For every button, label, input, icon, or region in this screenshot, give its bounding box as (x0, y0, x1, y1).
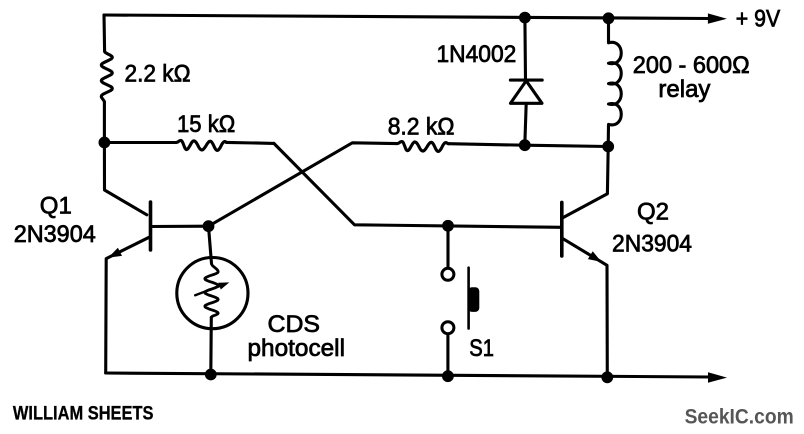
svg-text:SeekIC.com: SeekIC.com (685, 406, 794, 429)
svg-text:2N3904: 2N3904 (14, 221, 96, 248)
switch S1 upper contact circle (442, 268, 454, 280)
switch S1 bottom wire (446, 334, 449, 377)
arrow Q2 emitter (588, 251, 602, 262)
node B Q1 base junction (203, 220, 215, 232)
svg-text:photocell: photocell (248, 335, 346, 362)
node J photocell bottom on ground rail (205, 369, 217, 381)
wire bottom ground rail (106, 373, 710, 377)
svg-text:Q2: Q2 (637, 199, 669, 226)
transistor Q2 base bar (560, 202, 564, 256)
node E relay bottom junction (602, 141, 614, 153)
resistor R2 15 kOhm (horizontal) (104, 141, 176, 144)
arrow Q1 emitter (108, 248, 122, 258)
wire Q1 base to 8.2k (cross-coupling) (209, 143, 398, 226)
relay coil L1 200-600 Ohm (608, 18, 621, 146)
svg-text:1N4002: 1N4002 (437, 41, 517, 68)
photocell bottom wire (209, 317, 213, 374)
wire top supply rail (104, 15, 710, 19)
transistor Q1 base bar (149, 202, 153, 250)
svg-text:8.2 kΩ: 8.2 kΩ (388, 114, 455, 141)
switch S1 button blob (468, 287, 479, 312)
transistor Q1 collector wire (104, 143, 146, 215)
node G relay top on rail (603, 12, 615, 24)
node A Q1 collector junction (99, 137, 111, 149)
switch S1 top wire (446, 226, 449, 268)
svg-text:+ 9V: + 9V (736, 6, 780, 33)
transistor Q2 emitter wire (562, 238, 607, 377)
svg-text:S1: S1 (469, 335, 494, 362)
svg-text:WILLIAM SHEETS: WILLIAM SHEETS (13, 404, 154, 425)
node F diode top on rail (519, 12, 531, 24)
svg-text:Q1: Q1 (40, 192, 72, 219)
svg-text:CDS: CDS (268, 311, 321, 338)
photocell variable resistance squiggle (205, 264, 218, 318)
diode D1 1N4002 (523, 18, 527, 81)
transistor Q2 collector wire (563, 147, 608, 218)
arrow photocell (218, 282, 229, 289)
wire diode node to relay node (525, 145, 608, 146)
svg-text:2.2 kΩ: 2.2 kΩ (125, 60, 191, 87)
svg-text:15 kΩ: 15 kΩ (177, 111, 235, 138)
photocell arrow line (195, 284, 225, 295)
resistor R1 2.2 kOhm (vertical) (102, 15, 106, 51)
photocell top wire (209, 226, 212, 263)
svg-text:200 - 600Ω: 200 - 600Ω (633, 52, 750, 79)
photocell body circle (177, 258, 248, 329)
switch S1 lower contact circle (442, 322, 454, 334)
node H Q2 emitter on ground rail (601, 371, 613, 383)
svg-text:relay: relay (658, 76, 710, 103)
node D diode bottom junction (519, 139, 531, 151)
transistor Q1 base wire (151, 225, 209, 228)
arrow +9V rail (708, 13, 727, 23)
switch S1 actuator bar (467, 268, 470, 329)
arrow ground rail (708, 372, 727, 382)
node C Q2 base / S1 junction (442, 220, 454, 232)
transistor Q1 emitter wire (106, 237, 150, 373)
node I S1 bottom on ground rail (442, 370, 454, 382)
svg-text:2N3904: 2N3904 (612, 231, 692, 258)
resistor R3 8.2 kOhm (horizontal) (397, 142, 449, 152)
wire 15k to Q2 base (cross-coupling) (274, 143, 562, 227)
